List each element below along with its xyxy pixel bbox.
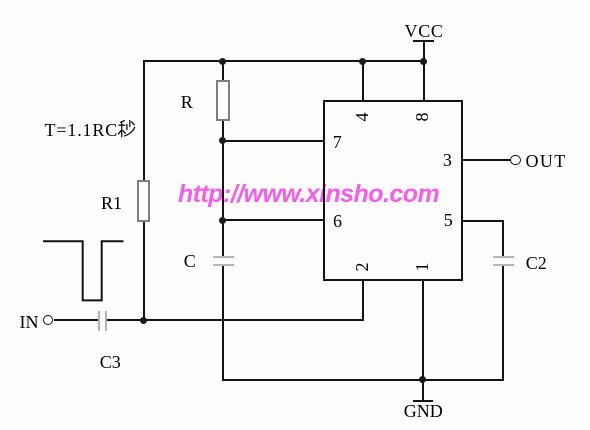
terminal IN circle xyxy=(43,315,53,325)
junction dot G (pin4 drop/top rail) xyxy=(359,58,366,65)
wire pin1 drop xyxy=(422,280,424,380)
power VCC label xyxy=(405,22,444,40)
ground GND bar xyxy=(413,400,433,402)
pin 2 label xyxy=(353,258,371,276)
pin 1 label xyxy=(413,258,431,276)
capacitor C2 xyxy=(0,0,590,1)
label T=1.1RC (formula) xyxy=(45,121,119,139)
junction dot E (GND node) xyxy=(419,376,426,383)
power VCC bar xyxy=(413,40,434,42)
junction dot F (R1 bottom / IN rail) xyxy=(140,317,147,324)
capacitor C3 xyxy=(0,0,590,1)
pin 7 label xyxy=(333,133,342,151)
label R1 xyxy=(101,194,122,212)
junction dot D (pin6 tap) xyxy=(219,217,226,224)
ground GND label xyxy=(404,402,443,420)
terminal OUT circle xyxy=(510,155,521,166)
wire pin7 stub xyxy=(222,140,324,142)
pin 4 label xyxy=(353,108,371,126)
op-amp U1 555 timer body xyxy=(323,100,463,280)
wire GND stub xyxy=(422,380,424,400)
label R xyxy=(181,93,193,111)
label IN xyxy=(20,313,39,331)
wire IN rail right segment xyxy=(107,319,364,321)
wire bottom rail xyxy=(222,379,504,381)
resistor R xyxy=(216,80,230,122)
pin 6 label xyxy=(333,212,342,230)
wire pin2 drop xyxy=(362,280,364,321)
wire VCC stem xyxy=(423,41,425,101)
resistor R1 xyxy=(137,180,151,222)
pin 3 label xyxy=(443,151,452,169)
wire pin6 stub xyxy=(222,219,324,221)
junction dot B (VCC/top rail) xyxy=(420,58,427,65)
label OUT xyxy=(526,152,567,170)
pin 5 label xyxy=(444,211,453,229)
input pulse waveform xyxy=(40,237,128,305)
wire RC column xyxy=(222,61,224,381)
capacitor C xyxy=(0,0,590,1)
wire pin3 stub xyxy=(463,159,511,161)
junction dot C (R bottom / pin7) xyxy=(219,137,226,144)
pin 8 label xyxy=(413,108,431,126)
wire pin5 stub xyxy=(463,220,504,222)
label C2 xyxy=(526,254,547,272)
label C3 xyxy=(100,353,121,371)
wire top rail xyxy=(143,60,425,62)
junction dot A (pin4/top rail) xyxy=(219,58,226,65)
label C xyxy=(184,252,196,270)
wire left vertical (R1 branch) xyxy=(143,60,145,321)
wire C2 column xyxy=(502,220,504,381)
wire IN rail left segment xyxy=(54,319,99,321)
watermark xinsho.com xyxy=(178,180,458,208)
wire pin4 drop xyxy=(362,61,364,101)
label miao (CJK seconds glyph) xyxy=(118,120,136,138)
